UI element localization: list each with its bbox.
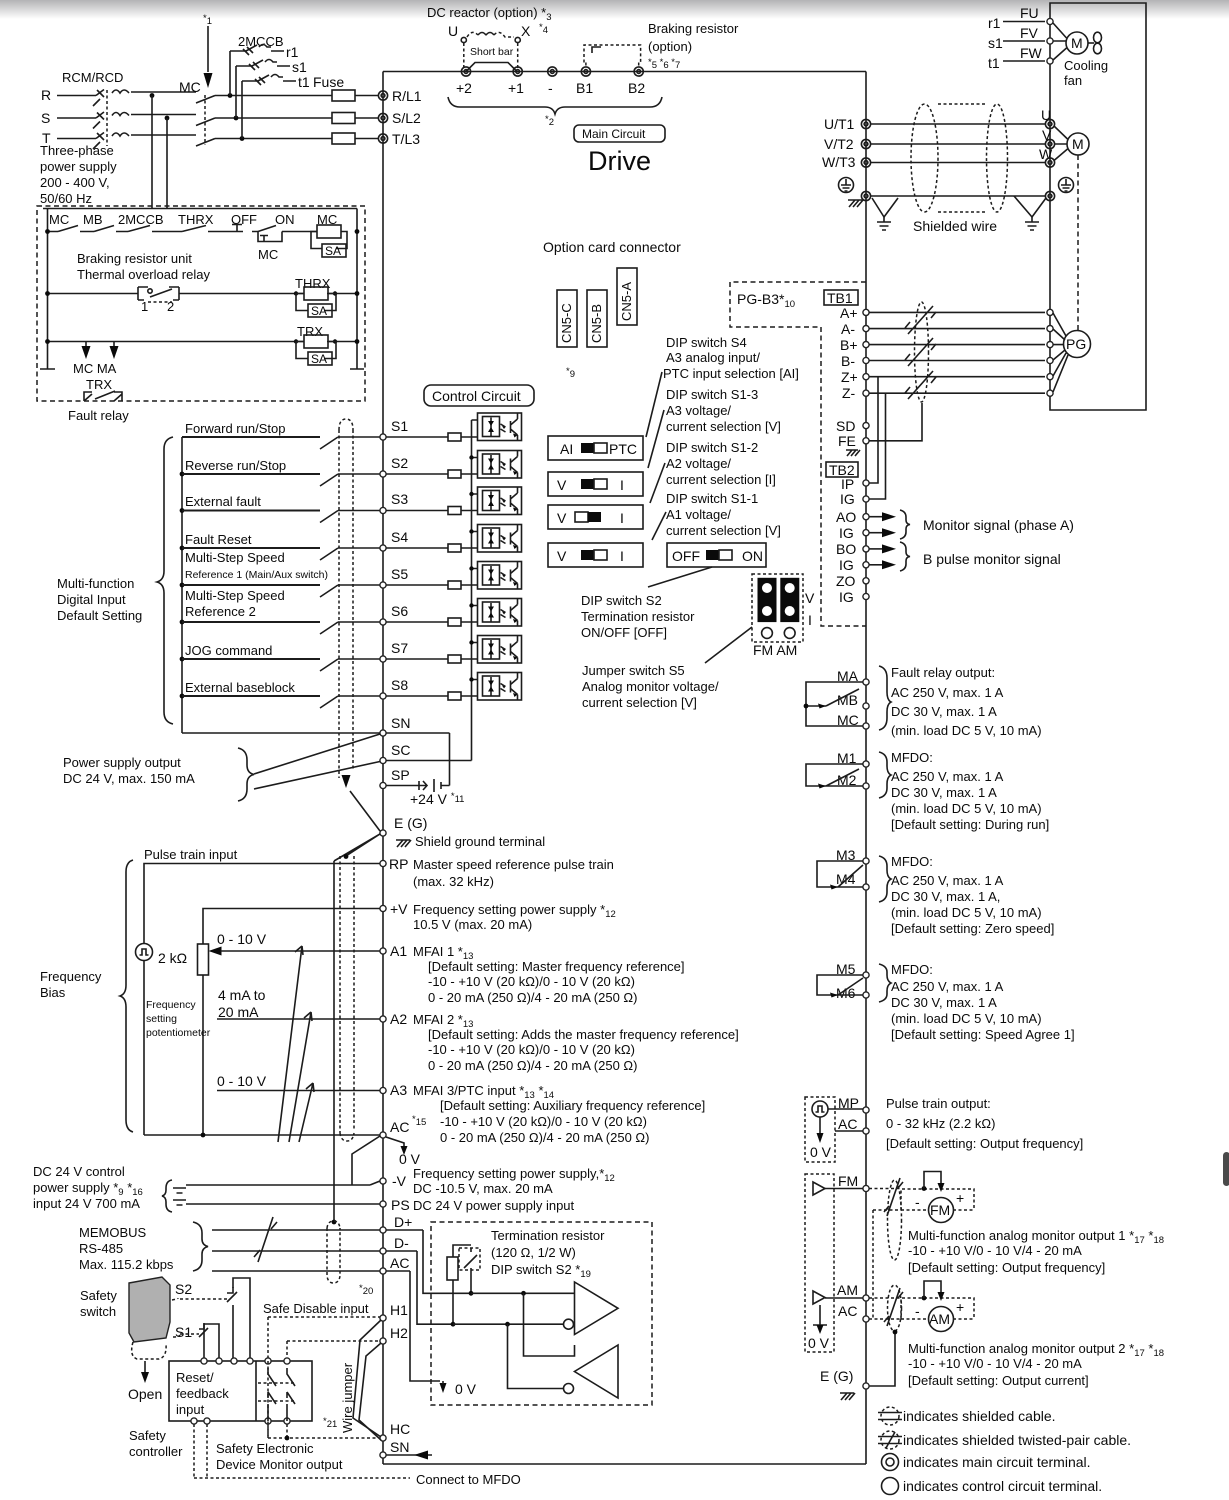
wire FM xyxy=(825,1188,863,1190)
terminal V motor xyxy=(1045,139,1054,148)
terminal M1 xyxy=(863,761,869,767)
row3 TRX line xyxy=(48,341,358,343)
terminal A+ xyxy=(863,309,869,315)
wire B+ xyxy=(869,344,1045,346)
wire t1-FW xyxy=(1003,60,1045,62)
svg-text:indicates main circuit termina: indicates main circuit terminal. xyxy=(903,1454,1091,1470)
ground hatch E(G) xyxy=(396,840,411,847)
contactor MC pole R xyxy=(196,96,215,104)
short bar jumper xyxy=(466,63,517,72)
svg-text:current selection [I]: current selection [I] xyxy=(666,472,776,487)
DIP switch S1-2 box V/I (I selected) xyxy=(548,505,643,529)
svg-text:input 24 V 700 mA: input 24 V 700 mA xyxy=(33,1196,140,1211)
signal leader slash A1 xyxy=(278,946,303,1142)
terminal W motor xyxy=(1045,158,1054,167)
terminal RP xyxy=(380,860,386,866)
svg-text:Master speed reference pulse t: Master speed reference pulse train xyxy=(413,857,614,872)
THRX SA xyxy=(296,294,336,311)
ground hatch FE xyxy=(846,450,860,456)
svg-text:FV: FV xyxy=(1020,25,1039,41)
inversion bubble driver xyxy=(564,1319,574,1329)
junction T to 2MCCB xyxy=(240,136,245,141)
terminal D+ xyxy=(380,1227,386,1233)
terminal HC xyxy=(380,1435,386,1441)
row2 THRX line xyxy=(48,293,358,295)
MC aux contact xyxy=(58,226,78,232)
svg-text:A1 voltage/: A1 voltage/ xyxy=(666,507,731,522)
dashed monitor output wires xyxy=(194,1424,410,1478)
svg-text:(max. 32 kHz): (max. 32 kHz) xyxy=(413,874,494,889)
ON pushbutton with MC parallel xyxy=(258,226,282,242)
FM meter dashed frame xyxy=(901,1189,974,1210)
junction D- branch xyxy=(505,1322,510,1327)
svg-text:DC 30 V, max. 1 A,: DC 30 V, max. 1 A, xyxy=(891,889,1000,904)
svg-text:[Default setting: Output frequ: [Default setting: Output frequency] xyxy=(886,1136,1083,1151)
CN5-A connector xyxy=(617,268,637,325)
terminal MB xyxy=(863,703,869,709)
svg-text:SP: SP xyxy=(391,767,410,783)
ground symbol left xyxy=(877,217,891,230)
leader to SC xyxy=(254,762,380,790)
svg-text:Reverse run/Stop: Reverse run/Stop xyxy=(185,458,286,473)
svg-text:AC: AC xyxy=(390,1255,409,1271)
AM twist slash xyxy=(884,1288,903,1326)
svg-text:Reference 1 (Main/Aux switch): Reference 1 (Main/Aux switch) xyxy=(185,569,328,581)
E(G) shield wire xyxy=(869,1332,895,1386)
fan blades xyxy=(1088,42,1094,44)
svg-text:Braking resistor unit: Braking resistor unit xyxy=(77,251,192,266)
svg-text:AO: AO xyxy=(836,509,856,525)
terminal MP xyxy=(863,1107,869,1113)
wire FE to shield xyxy=(869,403,922,441)
svg-text:Z+: Z+ xyxy=(841,369,858,385)
svg-text:Z-: Z- xyxy=(842,385,856,401)
0V arrow termination xyxy=(440,1383,447,1393)
jumper block FM xyxy=(758,578,777,622)
terminal BO xyxy=(863,546,869,552)
svg-text:Cooling: Cooling xyxy=(1064,58,1108,73)
svg-text:Multi-function: Multi-function xyxy=(57,576,134,591)
wire to receiver input xyxy=(524,1293,575,1356)
svg-text:RCM/RCD: RCM/RCD xyxy=(62,70,123,85)
terminal PS xyxy=(380,1201,386,1207)
svg-text:Option card connector: Option card connector xyxy=(543,239,681,255)
svg-text:Jumper switch S5: Jumper switch S5 xyxy=(582,663,685,678)
terminal SN xyxy=(380,730,386,736)
MC SA surge absorber xyxy=(311,232,347,249)
svg-text:U: U xyxy=(448,23,458,39)
terminal S2 xyxy=(380,471,386,477)
svg-text:+V: +V xyxy=(390,901,408,917)
optocoupler S1 xyxy=(478,413,522,441)
terminal M5 xyxy=(863,972,869,978)
arrow AO xyxy=(869,516,883,518)
resistor top wire and S2 switch xyxy=(453,1245,471,1293)
analog cable shield drain xyxy=(333,861,335,1222)
svg-text:FM: FM xyxy=(838,1173,858,1189)
svg-text:DC 30 V, max. 1 A: DC 30 V, max. 1 A xyxy=(891,785,997,800)
svg-text:A2 voltage/: A2 voltage/ xyxy=(666,456,731,471)
terminal IG xyxy=(863,496,869,502)
THRX contact xyxy=(182,226,206,232)
svg-text:(min. load DC 5 V, 10 mA): (min. load DC 5 V, 10 mA) xyxy=(891,905,1042,920)
svg-text:50/60 Hz: 50/60 Hz xyxy=(40,191,92,206)
M3/M4 contact xyxy=(817,861,863,887)
svg-text:A3 analog input/: A3 analog input/ xyxy=(666,350,760,365)
right accessory box xyxy=(1050,3,1146,410)
fuse T xyxy=(332,133,355,144)
svg-text:Fault Reset: Fault Reset xyxy=(185,532,252,547)
svg-text:-10 - +10 V/0 - 10 V/4 - 20 mA: -10 - +10 V/0 - 10 V/4 - 20 mA xyxy=(908,1243,1082,1258)
2MCCB branch s1 xyxy=(236,60,290,119)
wire A- xyxy=(869,328,1045,330)
svg-text:+: + xyxy=(956,1190,964,1206)
wire S line xyxy=(57,115,378,119)
terminal Z+ xyxy=(863,374,869,380)
wire R down to fault relay box xyxy=(151,96,153,207)
wire T line xyxy=(57,135,378,139)
svg-text:FE: FE xyxy=(838,433,856,449)
svg-text:SN: SN xyxy=(390,1439,409,1455)
svg-text:0 V: 0 V xyxy=(810,1144,832,1160)
S7 row JOG command xyxy=(180,657,185,662)
motor shaft dashed to PG xyxy=(1077,155,1079,330)
wire r1-FU xyxy=(1003,21,1045,23)
svg-text:JOG command: JOG command xyxy=(185,643,272,658)
wire A+ xyxy=(869,311,1045,313)
svg-text:input: input xyxy=(176,1402,205,1417)
MB contact xyxy=(94,226,114,232)
PG fan-in wires xyxy=(1053,313,1068,392)
svg-text:(min. load DC 5 V, 10 mA): (min. load DC 5 V, 10 mA) xyxy=(891,801,1042,816)
terminal SN2 xyxy=(380,1452,386,1458)
S2 contact blade xyxy=(227,1287,237,1302)
S2 row Reverse run/Stop xyxy=(180,472,185,477)
terminal V/T2 xyxy=(861,139,870,148)
svg-text:DIP switch S4: DIP switch S4 xyxy=(666,335,747,350)
svg-text:DIP switch S1-1: DIP switch S1-1 xyxy=(666,491,758,506)
MP 0V arrow xyxy=(819,1117,821,1133)
wire D- to comparator bubble xyxy=(453,1323,563,1325)
svg-text:feedback: feedback xyxy=(176,1386,229,1401)
svg-text:IG: IG xyxy=(839,557,854,573)
svg-text:0 - 32 kHz (2.2 kΩ): 0 - 32 kHz (2.2 kΩ) xyxy=(886,1116,995,1131)
ground wire to motor xyxy=(871,195,1045,197)
encoder PG xyxy=(1064,331,1091,358)
svg-text:T/L3: T/L3 xyxy=(392,131,420,147)
ground symbol right xyxy=(1025,217,1039,230)
svg-text:Short bar: Short bar xyxy=(470,46,514,58)
svg-text:TB1: TB1 xyxy=(827,290,853,306)
svg-text:Reference 2: Reference 2 xyxy=(185,604,256,619)
svg-text:S1: S1 xyxy=(175,1324,192,1340)
arrow IG1 xyxy=(869,532,883,534)
svg-text:H1: H1 xyxy=(390,1302,408,1318)
svg-text:MC: MC xyxy=(49,212,69,227)
row1 contact line xyxy=(48,231,318,233)
svg-text:MB: MB xyxy=(83,212,103,227)
termination resistor dashed box xyxy=(431,1222,652,1405)
svg-text:FU: FU xyxy=(1020,5,1039,21)
terminal Z- xyxy=(863,390,869,396)
svg-text:[Default setting: Adds the mas: [Default setting: Adds the master freque… xyxy=(428,1027,739,1042)
comparator driver xyxy=(575,1282,619,1335)
legend twisted pair symbol xyxy=(881,1431,899,1449)
TRX output contact xyxy=(84,391,122,401)
wire A1 xyxy=(221,950,381,952)
svg-text:OFF: OFF xyxy=(672,548,700,564)
arrow down MC xyxy=(85,342,87,348)
shield drop left xyxy=(872,198,898,217)
safe disable dashed box xyxy=(268,1317,380,1438)
brace MA xyxy=(879,666,891,730)
svg-text:Max. 115.2 kbps: Max. 115.2 kbps xyxy=(79,1257,174,1272)
svg-text:A3 voltage/: A3 voltage/ xyxy=(666,403,731,418)
DIP switch S1-3 box V/I xyxy=(548,472,643,496)
svg-text:Wire jumper: Wire jumper xyxy=(340,1362,355,1433)
S3 row External fault xyxy=(180,508,185,513)
twisted pair cable dashed ellipse xyxy=(915,302,929,402)
svg-text:AC: AC xyxy=(838,1303,857,1319)
svg-text:IP: IP xyxy=(841,476,854,492)
brace Multi-function Digital Input xyxy=(157,437,173,724)
DIP switch S1-1 box V/I xyxy=(548,543,643,567)
arrow Open xyxy=(144,1361,146,1373)
svg-text:S6: S6 xyxy=(391,603,408,619)
terminal H2 xyxy=(380,1338,386,1344)
svg-text:V: V xyxy=(557,548,567,564)
jumper block AM xyxy=(780,578,799,622)
svg-text:MFDO:: MFDO: xyxy=(891,854,933,869)
CN5-C connector xyxy=(557,290,577,347)
junction pot-AC xyxy=(201,1133,206,1138)
S2 dashed wire xyxy=(180,1298,227,1300)
terminal T/L3 xyxy=(378,134,387,143)
svg-text:Drive: Drive xyxy=(588,146,651,176)
shield cable ellipse right xyxy=(987,104,1008,212)
terminal S8 xyxy=(380,693,386,699)
svg-text:V: V xyxy=(805,590,815,606)
svg-text:FW: FW xyxy=(1020,45,1043,61)
wire A2 xyxy=(217,1018,380,1020)
optocoupler S7 xyxy=(478,636,522,664)
terminal ZO xyxy=(863,578,869,584)
svg-text:indicates control circuit term: indicates control circuit terminal. xyxy=(903,1478,1102,1494)
wire MP xyxy=(828,1109,863,1131)
RCM/RCD breaker pole S xyxy=(93,112,129,129)
wire battery to AC/-V xyxy=(186,1136,380,1185)
svg-text:B-: B- xyxy=(841,353,855,369)
svg-text:Fuse: Fuse xyxy=(313,74,344,90)
safety switch dashed outline below xyxy=(132,1298,180,1359)
memobus cable dashed capsule xyxy=(327,1221,340,1283)
svg-text:2 kΩ: 2 kΩ xyxy=(158,950,187,966)
svg-text:[Default setting: Output curre: [Default setting: Output current] xyxy=(908,1373,1089,1388)
svg-text:AM: AM xyxy=(837,1282,858,1298)
svg-text:DC -10.5 V, max. 20 mA: DC -10.5 V, max. 20 mA xyxy=(413,1181,553,1196)
svg-text:AI: AI xyxy=(560,441,573,457)
svg-text:V/T2: V/T2 xyxy=(824,136,854,152)
svg-text:DC 24 V control: DC 24 V control xyxy=(33,1164,125,1179)
svg-text:s1: s1 xyxy=(988,35,1003,51)
contactor MC pole S xyxy=(196,118,215,126)
terminal +V xyxy=(380,905,386,911)
terminal FE xyxy=(863,438,869,444)
svg-text:S4: S4 xyxy=(391,529,408,545)
svg-text:E (G): E (G) xyxy=(820,1368,853,1384)
svg-text:X: X xyxy=(521,23,531,39)
svg-text:0 V: 0 V xyxy=(455,1381,477,1397)
PE symbol motor xyxy=(1059,178,1074,193)
memobus twist slash xyxy=(254,1217,277,1262)
svg-text:s1: s1 xyxy=(292,59,307,75)
svg-text:AC 250 V, max. 1 A: AC 250 V, max. 1 A xyxy=(891,979,1004,994)
battery brace xyxy=(162,1180,172,1212)
wire SN down through battery to SP xyxy=(386,733,450,786)
svg-text:controller: controller xyxy=(129,1444,183,1459)
svg-text:-10 - +10 V/0 - 10 V/4 - 20 mA: -10 - +10 V/0 - 10 V/4 - 20 mA xyxy=(908,1356,1082,1371)
svg-text:THRX: THRX xyxy=(178,212,214,227)
svg-text:Three-phase: Three-phase xyxy=(40,143,114,158)
wire battery to PS xyxy=(186,1203,380,1205)
svg-text:Default Setting: Default Setting xyxy=(57,608,142,623)
svg-text:Analog monitor voltage/: Analog monitor voltage/ xyxy=(582,679,719,694)
braking resistor notch xyxy=(592,47,601,53)
svg-text:20 mA: 20 mA xyxy=(218,1004,259,1020)
svg-text:0 - 20 mA (250 Ω)/4 - 20 mA (2: 0 - 20 mA (250 Ω)/4 - 20 mA (250 Ω) xyxy=(440,1130,649,1145)
svg-text:DIP switch S1-2: DIP switch S1-2 xyxy=(666,440,758,455)
wire s1-FV xyxy=(1003,40,1045,42)
svg-text:W/T3: W/T3 xyxy=(822,154,856,170)
S1 contact blade xyxy=(199,1323,208,1337)
wire S down to fault relay box xyxy=(166,118,168,206)
termination resistor body xyxy=(447,1257,458,1280)
wire +V to pot top xyxy=(203,909,380,945)
wire to receiver bubble xyxy=(508,1324,564,1388)
svg-text:+24 V *11: +24 V *11 xyxy=(410,791,464,807)
left rail xyxy=(40,209,55,370)
svg-text:External baseblock: External baseblock xyxy=(185,680,295,695)
junction R to 2MCCB xyxy=(228,93,233,98)
S4 row Fault Reset xyxy=(180,546,185,551)
TRX SA xyxy=(296,342,336,359)
terminal B+ xyxy=(863,342,869,348)
terminal IG xyxy=(863,530,869,536)
AM amp triangle xyxy=(813,1291,825,1304)
signal leader slash A2 xyxy=(289,1012,312,1142)
svg-text:H2: H2 xyxy=(390,1325,408,1341)
svg-text:MC: MC xyxy=(179,79,201,95)
digital input cable dashed capsule xyxy=(339,419,353,778)
terminal D- xyxy=(380,1248,386,1254)
svg-text:Pulse train input: Pulse train input xyxy=(144,847,238,862)
svg-text:S2: S2 xyxy=(175,1281,192,1297)
terminal S4 xyxy=(380,545,386,551)
terminal B- xyxy=(863,357,869,363)
brace M3 xyxy=(879,856,891,902)
pot wiper arrow xyxy=(209,947,222,956)
fuse R xyxy=(332,90,355,101)
svg-text:(120 Ω, 1/2 W): (120 Ω, 1/2 W) xyxy=(491,1245,576,1260)
wire AM xyxy=(825,1297,863,1299)
brace monitor B xyxy=(900,542,910,571)
AM meter dashed frame xyxy=(901,1298,974,1319)
svg-text:r1: r1 xyxy=(286,44,299,60)
svg-text:HC: HC xyxy=(390,1421,410,1437)
twist slash pair Z xyxy=(905,371,936,399)
junction top-left xyxy=(45,229,50,234)
DIP switch S4 box AI/PTC xyxy=(548,436,643,460)
resistor bottom wire xyxy=(452,1280,454,1324)
svg-text:-10 - +10 V (20 kΩ)/0 - 10 V (: -10 - +10 V (20 kΩ)/0 - 10 V (20 kΩ) xyxy=(440,1114,647,1129)
junction S to fault box xyxy=(165,116,170,121)
fault relay contact xyxy=(806,682,863,726)
leader to SN xyxy=(254,734,380,774)
svg-text:[Default setting: During run]: [Default setting: During run] xyxy=(891,817,1049,832)
drive box bottom edge xyxy=(383,1463,866,1465)
svg-text:I: I xyxy=(620,548,624,564)
wire RP xyxy=(144,864,380,945)
svg-text:MEMOBUS: MEMOBUS xyxy=(79,1225,147,1240)
AM meter xyxy=(929,1307,954,1332)
wire W xyxy=(871,162,1045,164)
AC 0V arrow xyxy=(386,1137,404,1148)
svg-text:200 - 400 V,: 200 - 400 V, xyxy=(40,175,110,190)
arrow IG2 xyxy=(869,564,883,566)
svg-text:PS: PS xyxy=(391,1197,410,1213)
terminal B2 xyxy=(634,67,643,76)
svg-text:1: 1 xyxy=(141,299,148,314)
terminal S3 xyxy=(380,507,386,513)
Control Circuit rounded box xyxy=(424,385,534,406)
terminal S7 xyxy=(380,656,386,662)
svg-text:Shielded wire: Shielded wire xyxy=(913,218,997,234)
terminal +2 xyxy=(461,67,470,76)
+24V battery plates xyxy=(434,779,441,792)
PG terminals on box xyxy=(1047,309,1053,315)
terminal IG xyxy=(863,562,869,568)
terminal S5 xyxy=(380,582,386,588)
2MCCB branch r1 xyxy=(230,45,284,96)
svg-text:DC 30 V, max. 1 A: DC 30 V, max. 1 A xyxy=(891,704,997,719)
svg-text:CN5-B: CN5-B xyxy=(589,304,604,343)
wire jumper H1-HC xyxy=(353,1320,381,1437)
contactor MC pole T xyxy=(196,139,215,147)
ground hatch at drive xyxy=(848,200,863,207)
svg-text:t1: t1 xyxy=(988,55,1000,71)
S1 dashed wire xyxy=(180,1333,199,1335)
terminal AC mp xyxy=(863,1128,869,1134)
svg-text:Device Monitor output: Device Monitor output xyxy=(216,1457,343,1472)
svg-text:-V: -V xyxy=(392,1173,407,1189)
svg-text:External fault: External fault xyxy=(185,494,261,509)
svg-text:ZO: ZO xyxy=(836,573,856,589)
thermal contact 1-2 xyxy=(138,287,179,300)
svg-text:ON/OFF [OFF]: ON/OFF [OFF] xyxy=(581,625,667,640)
drive box left edge xyxy=(382,72,384,1465)
arrow *1 pointing to MC xyxy=(207,26,209,72)
svg-text:*5 *6 *7: *5 *6 *7 xyxy=(648,57,680,71)
svg-text:current selection [V]: current selection [V] xyxy=(666,419,781,434)
svg-text:R: R xyxy=(41,87,51,103)
FM dashed meter wire xyxy=(869,1189,901,1320)
svg-text:Frequency: Frequency xyxy=(40,969,102,984)
terminal FW xyxy=(1047,58,1053,64)
terminal S/L2 xyxy=(378,113,387,122)
svg-text:V: V xyxy=(557,510,567,526)
svg-text:IG: IG xyxy=(840,491,855,507)
svg-text:fan: fan xyxy=(1064,73,1082,88)
